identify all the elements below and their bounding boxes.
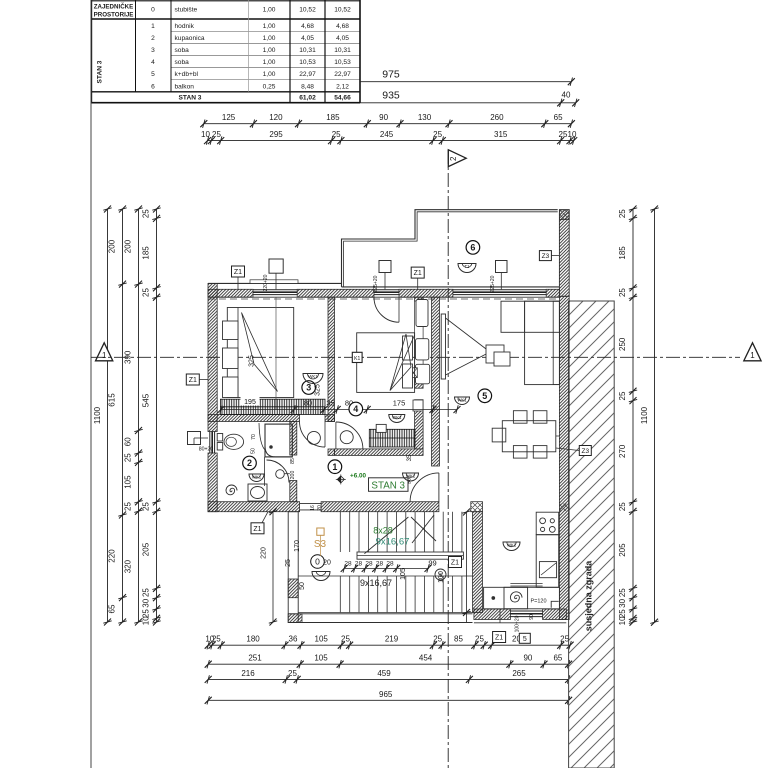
svg-text:10,31: 10,31 <box>299 47 316 54</box>
svg-text:2,12: 2,12 <box>336 83 349 90</box>
svg-text:28: 28 <box>355 561 363 568</box>
svg-text:180: 180 <box>246 635 260 644</box>
svg-text:1,00: 1,00 <box>263 7 276 14</box>
svg-text:Z3: Z3 <box>582 448 590 455</box>
svg-text:315: 315 <box>494 130 508 139</box>
svg-text:kupaonica: kupaonica <box>175 35 205 42</box>
svg-text:65: 65 <box>553 654 562 663</box>
svg-text:Z1: Z1 <box>451 560 459 567</box>
svg-text:soba: soba <box>175 59 190 66</box>
svg-text:935: 935 <box>382 90 400 102</box>
svg-text:30: 30 <box>142 598 151 607</box>
svg-text:615: 615 <box>108 393 117 407</box>
svg-text:0: 0 <box>315 557 320 567</box>
svg-text:susjedna zgrada: susjedna zgrada <box>584 560 594 632</box>
svg-text:25: 25 <box>124 453 133 462</box>
svg-text:10,52: 10,52 <box>299 7 316 14</box>
svg-text:1100: 1100 <box>640 406 649 424</box>
svg-text:20: 20 <box>323 560 331 567</box>
svg-text:325: 325 <box>315 384 322 396</box>
svg-text:WK1: WK1 <box>406 473 416 478</box>
svg-text:80: 80 <box>304 399 312 408</box>
svg-text:105: 105 <box>400 568 407 580</box>
svg-text:85: 85 <box>290 458 296 464</box>
svg-text:10: 10 <box>201 130 210 139</box>
svg-text:195: 195 <box>244 399 256 406</box>
svg-text:90: 90 <box>523 654 532 663</box>
svg-text:1: 1 <box>750 351 755 360</box>
svg-text:1: 1 <box>332 462 337 472</box>
svg-text:WK1: WK1 <box>507 542 517 547</box>
svg-text:1: 1 <box>151 23 155 30</box>
svg-text:10: 10 <box>618 616 627 625</box>
svg-text:320: 320 <box>124 559 133 573</box>
svg-text:8,48: 8,48 <box>301 83 314 90</box>
svg-text:170: 170 <box>294 540 301 552</box>
svg-text:25: 25 <box>618 209 627 218</box>
svg-text:25: 25 <box>285 559 292 567</box>
svg-text:35: 35 <box>407 454 413 461</box>
svg-text:105: 105 <box>124 475 133 489</box>
svg-text:4: 4 <box>151 59 155 66</box>
svg-text:25: 25 <box>288 669 297 678</box>
svg-text:10,31: 10,31 <box>334 47 351 54</box>
svg-text:185: 185 <box>618 246 627 260</box>
svg-text:STAN 3: STAN 3 <box>97 60 104 83</box>
svg-text:1,00: 1,00 <box>263 47 276 54</box>
svg-text:40: 40 <box>562 91 571 100</box>
svg-text:20: 20 <box>317 505 323 511</box>
svg-text:90: 90 <box>529 614 535 620</box>
svg-text:65: 65 <box>108 604 117 613</box>
svg-text:219: 219 <box>385 635 399 644</box>
svg-text:251: 251 <box>248 654 262 663</box>
svg-text:STAN 3: STAN 3 <box>371 480 405 491</box>
svg-text:30: 30 <box>618 598 627 607</box>
svg-text:k+db+bl: k+db+bl <box>175 71 199 78</box>
svg-text:ZAJEDNIČKE: ZAJEDNIČKE <box>94 4 134 11</box>
svg-text:459: 459 <box>377 669 391 678</box>
svg-text:220+20: 220+20 <box>263 274 269 291</box>
svg-text:60: 60 <box>124 437 133 446</box>
svg-text:4,05: 4,05 <box>301 35 314 42</box>
svg-text:125: 125 <box>222 113 236 122</box>
svg-text:Z3: Z3 <box>542 253 550 260</box>
svg-text:25: 25 <box>142 209 151 218</box>
svg-text:1,00: 1,00 <box>263 35 276 42</box>
svg-text:205: 205 <box>142 542 151 556</box>
svg-text:25: 25 <box>142 588 151 597</box>
svg-text:120: 120 <box>269 113 283 122</box>
svg-text:28: 28 <box>386 561 394 568</box>
svg-text:hodnik: hodnik <box>175 23 195 30</box>
svg-text:105: 105 <box>315 635 329 644</box>
svg-text:3: 3 <box>151 47 155 54</box>
svg-text:25: 25 <box>332 130 341 139</box>
svg-text:2: 2 <box>247 458 252 468</box>
svg-text:200: 200 <box>290 471 296 480</box>
svg-text:975: 975 <box>382 69 400 81</box>
svg-text:1,00: 1,00 <box>263 71 276 78</box>
svg-text:25: 25 <box>341 635 350 644</box>
svg-text:K1: K1 <box>354 356 360 362</box>
svg-text:Z1: Z1 <box>495 635 503 642</box>
svg-text:4,68: 4,68 <box>301 23 314 30</box>
svg-text:1100: 1100 <box>93 406 102 424</box>
svg-text:0,25: 0,25 <box>263 83 276 90</box>
svg-text:6: 6 <box>470 243 475 253</box>
svg-text:10,53: 10,53 <box>299 59 316 66</box>
svg-text:200: 200 <box>124 239 133 253</box>
svg-text:25: 25 <box>433 130 442 139</box>
svg-text:99: 99 <box>428 559 436 568</box>
svg-text:0: 0 <box>151 7 155 14</box>
svg-text:9x16,67: 9x16,67 <box>360 578 392 588</box>
svg-text:balkon: balkon <box>175 83 195 90</box>
svg-text:90: 90 <box>379 113 388 122</box>
svg-text:6: 6 <box>151 83 155 90</box>
svg-text:325: 325 <box>249 355 256 367</box>
svg-text:8x28: 8x28 <box>373 526 393 536</box>
svg-text:WK1: WK1 <box>252 474 262 479</box>
svg-text:1,00: 1,00 <box>263 59 276 66</box>
svg-text:1,00: 1,00 <box>263 23 276 30</box>
svg-text:10,53: 10,53 <box>334 59 351 66</box>
svg-text:25: 25 <box>433 635 442 644</box>
svg-text:16: 16 <box>310 505 316 511</box>
svg-text:205: 205 <box>618 543 627 557</box>
svg-text:25: 25 <box>618 588 627 597</box>
svg-text:10: 10 <box>142 616 151 625</box>
svg-text:260: 260 <box>490 113 504 122</box>
svg-text:28: 28 <box>376 561 384 568</box>
svg-text:130: 130 <box>418 113 432 122</box>
svg-text:10: 10 <box>568 130 577 139</box>
svg-text:2: 2 <box>449 156 458 161</box>
svg-text:36: 36 <box>289 635 298 644</box>
svg-text:965: 965 <box>379 690 393 699</box>
svg-text:25: 25 <box>475 635 484 644</box>
svg-text:25: 25 <box>142 502 151 511</box>
svg-text:4,05: 4,05 <box>336 35 349 42</box>
svg-text:4: 4 <box>353 404 358 414</box>
svg-text:250: 250 <box>618 337 627 351</box>
svg-text:5: 5 <box>151 71 155 78</box>
svg-text:25: 25 <box>618 502 627 511</box>
svg-text:225+20: 225+20 <box>490 275 496 292</box>
svg-text:25: 25 <box>124 502 133 511</box>
svg-text:WK1: WK1 <box>457 397 467 402</box>
svg-text:270: 270 <box>618 444 627 458</box>
svg-text:454: 454 <box>419 654 433 663</box>
svg-text:4,68: 4,68 <box>336 23 349 30</box>
svg-text:PROSTORIJE: PROSTORIJE <box>94 12 134 19</box>
svg-text:WK1: WK1 <box>392 415 402 420</box>
svg-text:25: 25 <box>212 130 221 139</box>
svg-text:28: 28 <box>344 561 352 568</box>
svg-text:Z1: Z1 <box>189 377 197 384</box>
svg-text:25: 25 <box>618 288 627 297</box>
svg-text:216: 216 <box>241 669 255 678</box>
svg-text:T1: T1 <box>464 264 470 269</box>
svg-text:Z1: Z1 <box>414 270 422 277</box>
svg-text:22,97: 22,97 <box>334 71 351 78</box>
svg-text:175: 175 <box>393 399 406 408</box>
svg-text:+6.00: +6.00 <box>350 473 366 480</box>
svg-text:P=120: P=120 <box>530 598 546 604</box>
svg-text:61,02: 61,02 <box>299 95 316 102</box>
svg-text:70: 70 <box>251 434 257 440</box>
svg-text:2: 2 <box>151 35 155 42</box>
svg-text:soba: soba <box>175 47 190 54</box>
svg-text:35: 35 <box>326 399 334 408</box>
svg-text:25: 25 <box>618 391 627 400</box>
svg-text:1: 1 <box>102 351 107 360</box>
svg-text:220: 220 <box>108 549 117 563</box>
svg-text:WK1: WK1 <box>308 374 318 379</box>
svg-text:85: 85 <box>454 635 463 644</box>
svg-text:185: 185 <box>142 246 151 260</box>
svg-text:Z1: Z1 <box>234 269 242 276</box>
svg-text:265: 265 <box>512 669 526 678</box>
svg-text:10,52: 10,52 <box>334 7 351 14</box>
svg-text:185: 185 <box>326 113 340 122</box>
svg-text:220: 220 <box>261 547 268 559</box>
svg-text:65: 65 <box>554 113 563 122</box>
svg-text:28: 28 <box>365 561 373 568</box>
svg-text:225+20: 225+20 <box>373 275 379 292</box>
svg-text:25: 25 <box>212 635 221 644</box>
svg-text:9x16,67: 9x16,67 <box>376 537 410 548</box>
svg-text:80+20: 80+20 <box>199 447 214 453</box>
svg-text:105: 105 <box>314 654 328 663</box>
svg-text:54,66: 54,66 <box>334 95 351 102</box>
svg-text:3: 3 <box>306 383 311 393</box>
svg-text:50: 50 <box>299 582 306 590</box>
svg-text:25: 25 <box>142 288 151 297</box>
svg-text:22,97: 22,97 <box>299 71 316 78</box>
svg-text:stubište: stubište <box>175 7 198 14</box>
svg-text:5: 5 <box>523 636 527 643</box>
svg-text:545: 545 <box>142 393 151 407</box>
svg-text:100+20: 100+20 <box>515 615 521 632</box>
svg-text:50: 50 <box>251 448 257 454</box>
svg-text:295: 295 <box>269 130 283 139</box>
svg-text:Z1: Z1 <box>253 526 261 533</box>
svg-text:5: 5 <box>482 391 487 401</box>
svg-text:STAN 3: STAN 3 <box>179 95 202 102</box>
svg-text:245: 245 <box>380 130 394 139</box>
svg-text:200: 200 <box>108 239 117 253</box>
